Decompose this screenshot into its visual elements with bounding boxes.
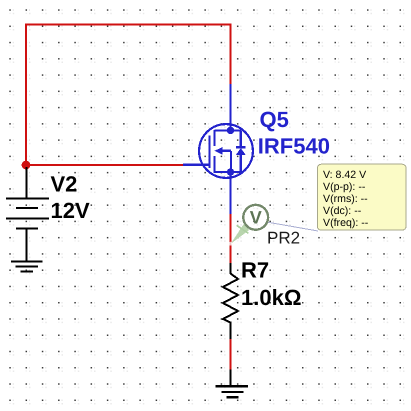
svg-text:12V: 12V [51,198,90,223]
svg-text:V: V [250,208,262,228]
svg-text:V(freq): --: V(freq): -- [323,217,369,229]
svg-text:V(dc): --: V(dc): -- [323,205,362,217]
svg-text:PR2: PR2 [267,228,300,247]
svg-text:1.0kΩ: 1.0kΩ [241,285,301,310]
svg-text:IRF540: IRF540 [258,133,330,158]
svg-text:R7: R7 [241,257,269,282]
svg-text:V(p-p): --: V(p-p): -- [323,181,366,193]
svg-text:V2: V2 [51,172,78,197]
svg-text:Q5: Q5 [260,107,289,132]
svg-text:V: 8.42 V: V: 8.42 V [323,169,367,181]
svg-text:V(rms): --: V(rms): -- [323,193,368,205]
